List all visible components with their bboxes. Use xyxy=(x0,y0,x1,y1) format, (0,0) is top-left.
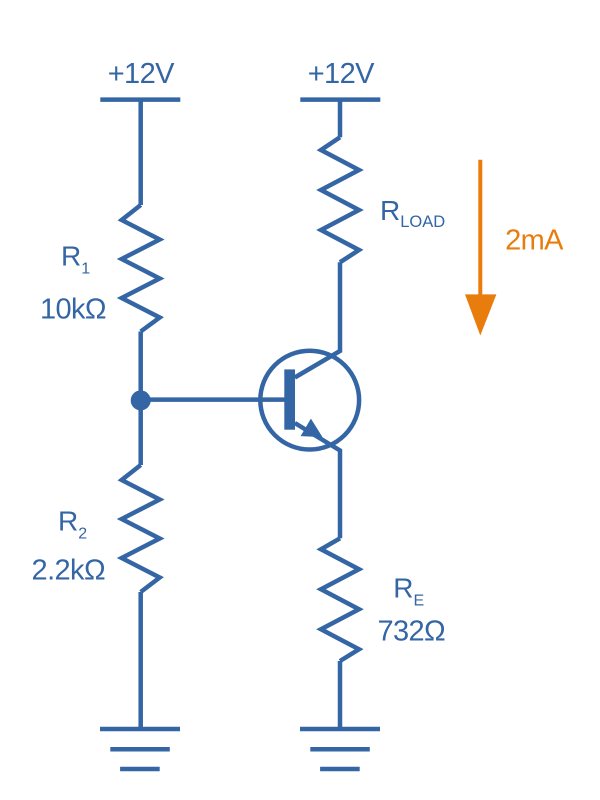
resistor R2 xyxy=(122,465,160,592)
wire RE to ground right xyxy=(338,661,343,729)
wire rail to RLOAD xyxy=(338,100,343,138)
current arrow 2mA shaft xyxy=(478,160,482,296)
supply rail bar left xyxy=(100,97,180,102)
ground left xyxy=(100,729,180,769)
wire base (node A to Q1 base) xyxy=(141,397,286,402)
svg-text:2.2kΩ: 2.2kΩ xyxy=(32,554,106,586)
ground right xyxy=(300,729,380,769)
svg-text:+12V: +12V xyxy=(308,58,375,90)
svg-text:RE: RE xyxy=(393,572,424,609)
supply rail bar right xyxy=(300,97,380,102)
svg-text:10kΩ: 10kΩ xyxy=(40,294,106,326)
current arrow 2mA head xyxy=(465,294,496,335)
wire R2 to ground left xyxy=(138,592,143,729)
wire emitter (Q1 to RE) xyxy=(295,423,340,538)
svg-text:R2: R2 xyxy=(58,506,87,543)
svg-text:+12V: +12V xyxy=(108,58,175,90)
svg-text:732Ω: 732Ω xyxy=(377,616,445,648)
wire node A to R2 xyxy=(138,400,143,465)
transistor Q1 base bar xyxy=(284,369,295,429)
wire rail to R1 xyxy=(138,100,143,205)
svg-text:2mA: 2mA xyxy=(505,225,564,257)
transistor Q1 emitter arrow xyxy=(301,419,323,438)
wire collector (RLOAD to Q1) xyxy=(295,262,340,377)
wire R1 to node A xyxy=(138,332,143,401)
transistor Q1 body circle xyxy=(260,351,359,450)
node A junction dot xyxy=(131,390,151,410)
svg-text:RLOAD: RLOAD xyxy=(380,195,445,231)
resistor R1 xyxy=(122,205,160,332)
resistor RE xyxy=(321,538,359,661)
svg-text:R1: R1 xyxy=(61,241,90,278)
resistor RLOAD xyxy=(321,137,359,262)
